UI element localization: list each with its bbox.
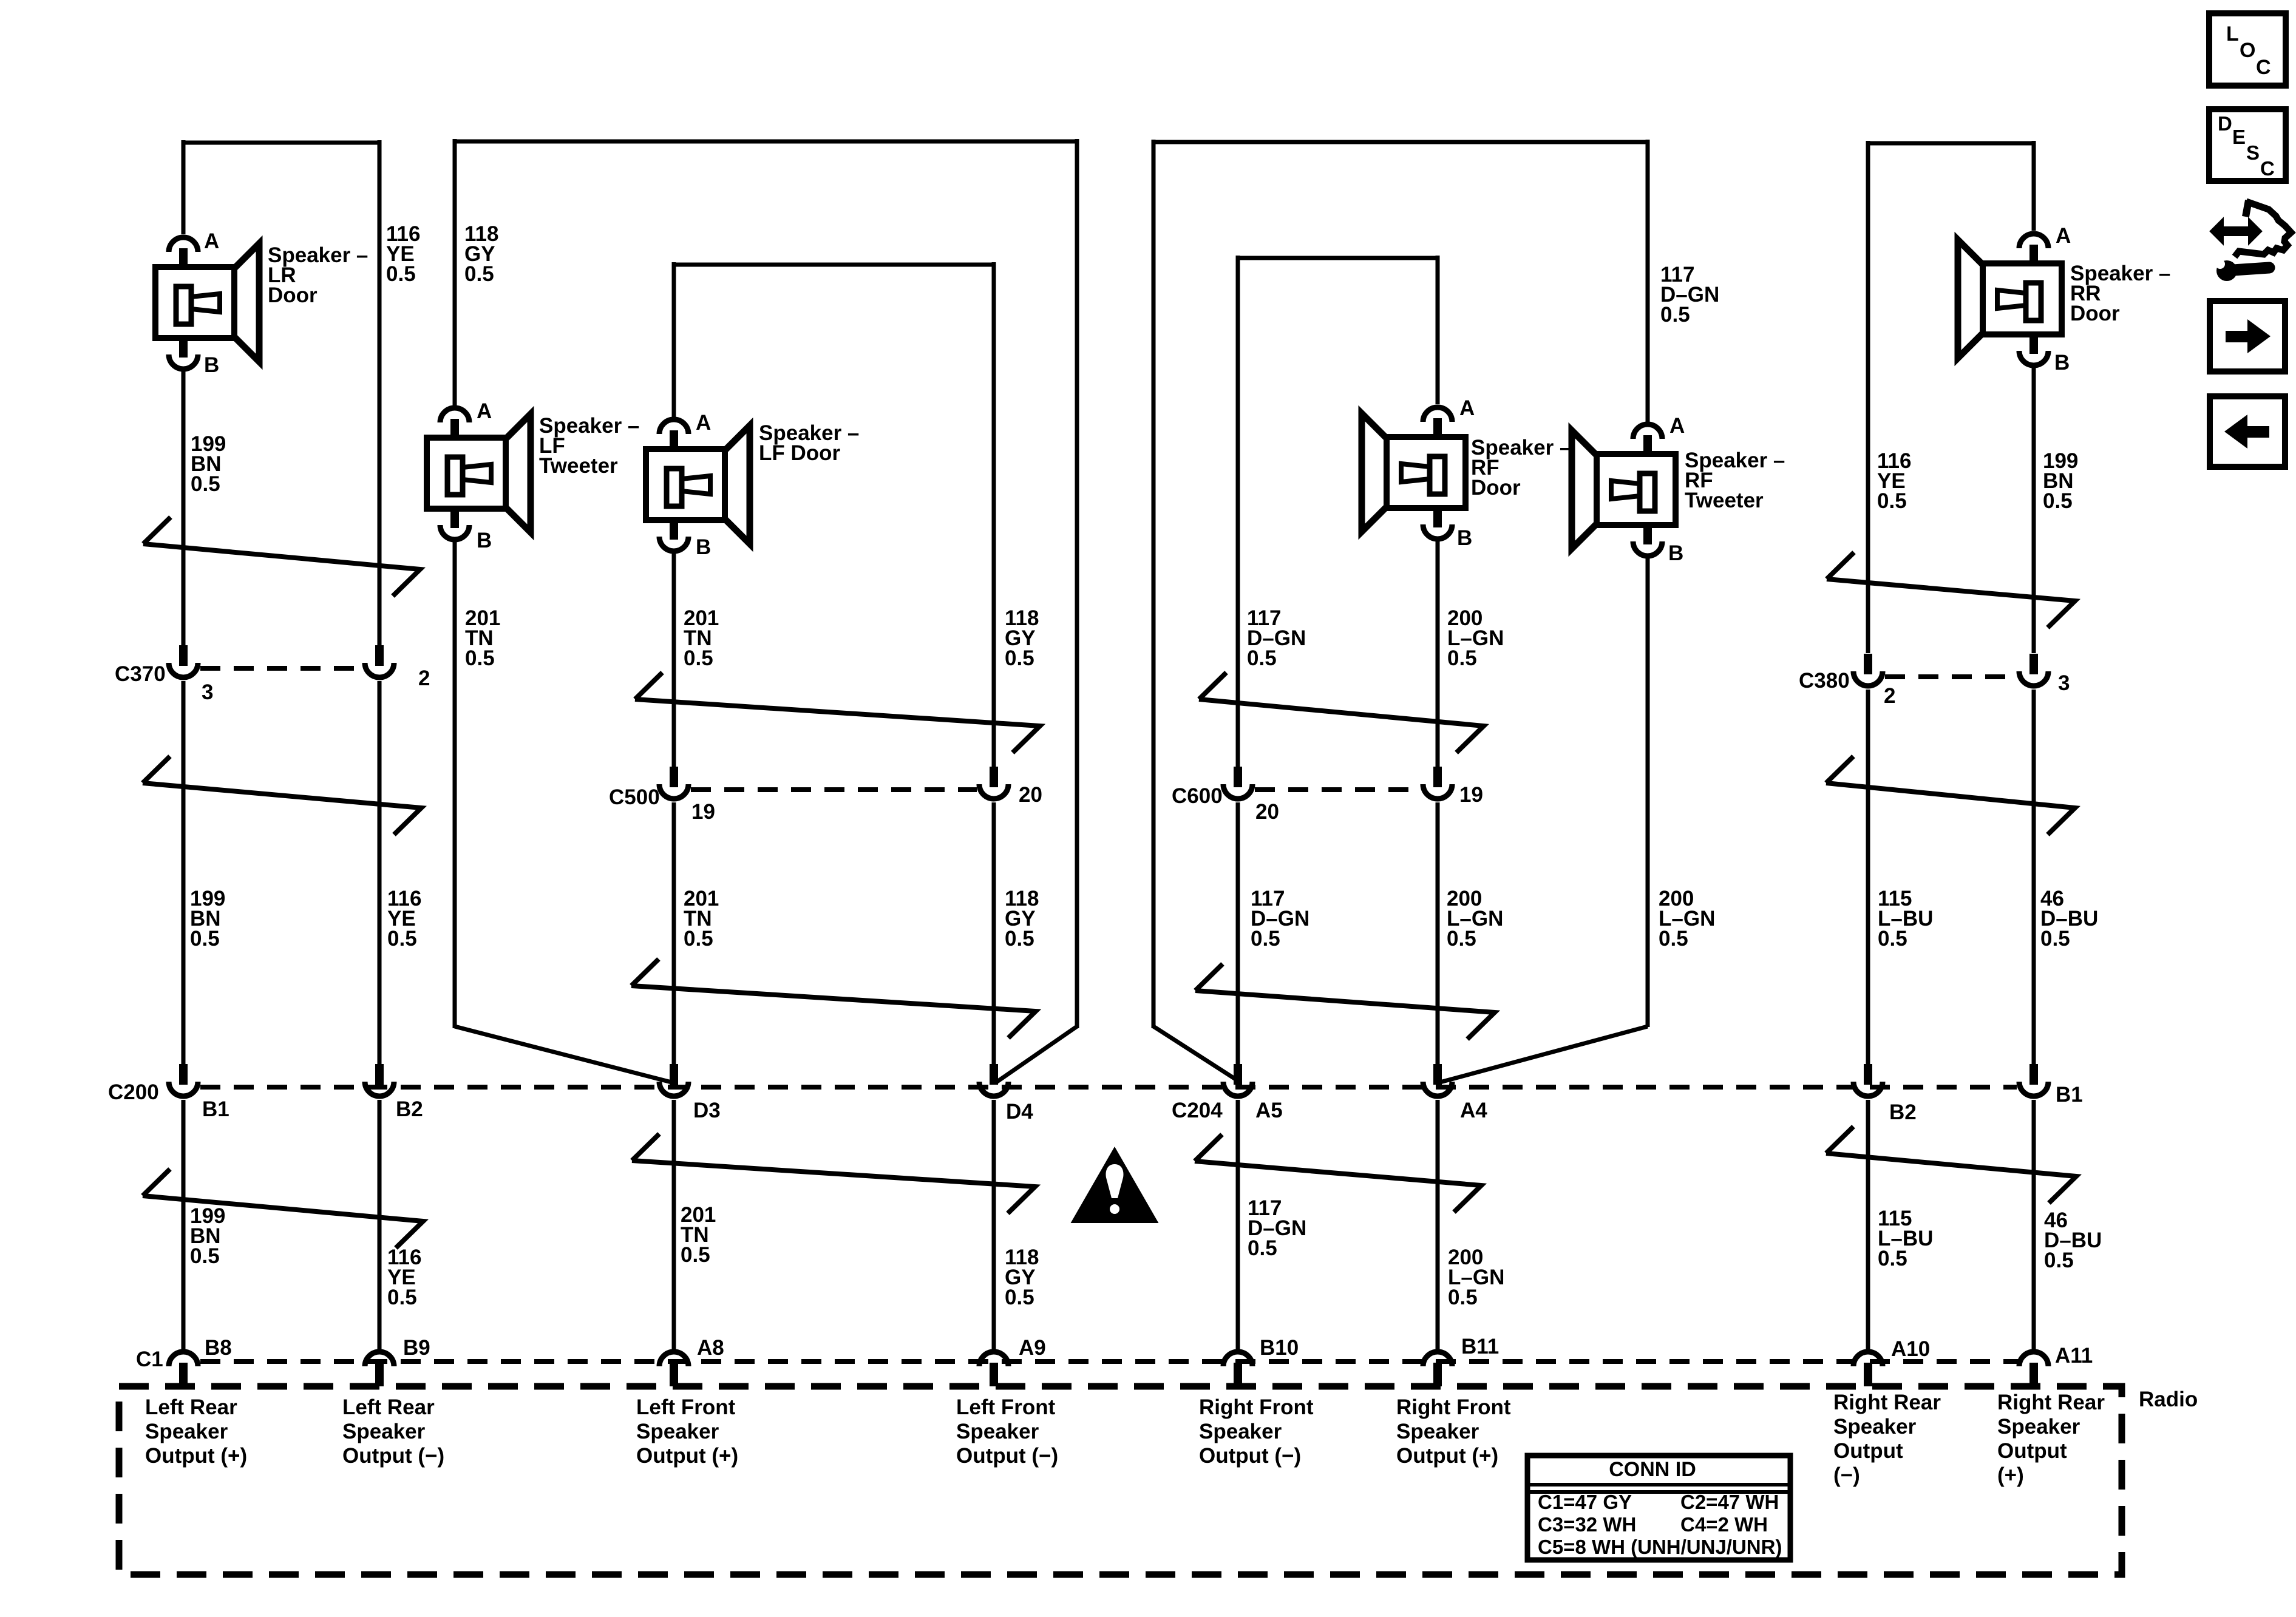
wire 117 D-GN (C600 to C204) <box>1236 802 1240 1065</box>
speaker LF Door <box>659 419 688 434</box>
svg-text:Output (+): Output (+) <box>1396 1444 1498 1468</box>
svg-text:0.5: 0.5 <box>2044 1249 2074 1272</box>
svg-text:Speaker: Speaker <box>956 1420 1039 1443</box>
break symbol RR pair middle <box>1826 756 2075 835</box>
svg-text:0.5: 0.5 <box>684 927 713 951</box>
svg-text:0.5: 0.5 <box>1247 646 1277 670</box>
svg-text:Output (−): Output (−) <box>342 1444 444 1468</box>
svg-text:0.5: 0.5 <box>2040 927 2070 951</box>
svg-text:A: A <box>696 411 711 435</box>
wire loop top LR circuit <box>183 141 379 145</box>
connector C380 dashed line <box>1885 674 2017 679</box>
connector C500 dashed line <box>691 787 977 792</box>
svg-text:Output (−): Output (−) <box>1199 1444 1301 1468</box>
connector C1 pin B8 <box>169 1352 198 1366</box>
wire 201 TN (C200 row to radio C1 row) <box>672 1100 676 1350</box>
svg-text:LF Door: LF Door <box>759 441 841 465</box>
svg-text:0.5: 0.5 <box>387 1286 417 1309</box>
svg-text:CONN ID: CONN ID <box>1609 1458 1696 1481</box>
radio box (dashed) <box>119 1386 2122 1575</box>
svg-text:Output: Output <box>1997 1439 2067 1463</box>
wire 116 YE (C200 row to radio C1 row) <box>378 1100 382 1350</box>
svg-text:C: C <box>2260 157 2275 180</box>
svg-text:A4: A4 <box>1460 1099 1487 1122</box>
svg-text:0.5: 0.5 <box>1005 1286 1034 1309</box>
icon DESC box <box>2209 109 2286 181</box>
svg-text:0.5: 0.5 <box>684 646 713 670</box>
connector C370 pin 3 <box>179 645 188 666</box>
connector C1 pin B11 <box>1423 1352 1452 1366</box>
svg-text:0.5: 0.5 <box>386 262 416 286</box>
svg-text:0.5: 0.5 <box>2043 489 2073 513</box>
svg-text:B: B <box>1457 526 1472 550</box>
break symbol LR pair middle <box>143 756 421 835</box>
speaker LR Door <box>169 237 198 252</box>
wire slant LF tweeter to D3 <box>455 1026 671 1082</box>
connector C200 pin B2 right <box>1864 1064 1872 1085</box>
svg-text:2: 2 <box>418 666 430 690</box>
svg-text:C1=47 GY: C1=47 GY <box>1538 1491 1632 1513</box>
svg-text:A5: A5 <box>1255 1099 1283 1122</box>
svg-text:Right Rear: Right Rear <box>1997 1391 2105 1414</box>
svg-text:(−): (−) <box>1833 1463 1860 1487</box>
svg-text:0.5: 0.5 <box>681 1243 710 1267</box>
wire 200 L-GN (C600 to C204) <box>1436 802 1440 1065</box>
svg-text:Right Rear: Right Rear <box>1833 1391 1941 1414</box>
icon forward arrow box <box>2210 301 2285 371</box>
break symbol RF pair lower <box>1195 1134 1481 1212</box>
svg-text:3: 3 <box>202 680 213 704</box>
svg-text:20: 20 <box>1255 800 1279 824</box>
CONN ID table <box>1527 1456 1790 1560</box>
connector C1 dashed line <box>200 1359 2022 1364</box>
svg-text:C600: C600 <box>1172 784 1223 808</box>
svg-text:0.5: 0.5 <box>1448 1286 1478 1309</box>
wire 118 GY (C500 to C200) <box>992 802 996 1065</box>
wire 201 TN (LF Door B to C500) <box>672 554 676 767</box>
break symbol LF pair middle <box>631 959 1036 1038</box>
wire 201 TN (LF tweeter B down) <box>453 542 457 1028</box>
svg-text:Door: Door <box>2070 302 2120 325</box>
connector C200 pin D4 <box>990 1064 998 1085</box>
icon back arrow box <box>2210 396 2285 467</box>
svg-text:0.5: 0.5 <box>190 927 220 951</box>
connector C200 pin B1 right <box>2029 1064 2038 1085</box>
svg-text:0.5: 0.5 <box>1447 646 1477 670</box>
connector C200 pin B1 <box>179 1064 188 1085</box>
svg-text:Left Rear: Left Rear <box>145 1395 237 1419</box>
svg-text:C: C <box>2256 56 2271 79</box>
svg-text:A8: A8 <box>697 1336 724 1360</box>
svg-text:A10: A10 <box>1891 1337 1930 1361</box>
connector C204 pin A4 <box>1433 1064 1442 1085</box>
svg-text:20: 20 <box>1019 783 1042 807</box>
wire 117 D-GN (C200 row to radio C1 row) <box>1236 1100 1240 1350</box>
svg-text:0.5: 0.5 <box>1659 927 1688 951</box>
svg-text:Tweeter: Tweeter <box>1685 489 1764 512</box>
svg-text:0.5: 0.5 <box>387 927 417 951</box>
svg-text:0.5: 0.5 <box>1878 927 1907 951</box>
svg-text:0.5: 0.5 <box>1878 1247 1907 1270</box>
icon harness jump symbol <box>2222 226 2250 236</box>
svg-text:Output (−): Output (−) <box>956 1444 1058 1468</box>
svg-text:0.5: 0.5 <box>1005 646 1034 670</box>
wire 201 TN (C500 to C200) <box>672 802 676 1065</box>
svg-text:(+): (+) <box>1997 1463 2024 1487</box>
svg-text:Speaker: Speaker <box>1396 1420 1479 1443</box>
svg-text:B2: B2 <box>1889 1100 1917 1124</box>
wire loop top RF inner <box>1238 256 1438 260</box>
connector C200 dashed line <box>200 1085 2017 1090</box>
svg-text:0.5: 0.5 <box>1877 489 1907 513</box>
svg-text:C2=47 WH: C2=47 WH <box>1680 1491 1779 1513</box>
break symbol RR pair upper <box>1827 552 2075 628</box>
svg-text:Radio: Radio <box>2139 1388 2198 1411</box>
break symbol RF pair upper <box>1199 673 1484 753</box>
wire slant LF outer to D4 <box>996 1026 1077 1082</box>
svg-text:B10: B10 <box>1260 1336 1299 1360</box>
svg-text:19: 19 <box>1459 783 1483 807</box>
connector C500 pin 19 <box>670 767 678 787</box>
svg-text:C370: C370 <box>115 662 166 686</box>
wire 46 D-BU (C200 row to radio C1 row) <box>2032 1100 2036 1350</box>
svg-text:Output (+): Output (+) <box>636 1444 738 1468</box>
wire 115 L-BU (C380 to C200) <box>1866 690 1870 1065</box>
svg-text:E: E <box>2232 126 2246 148</box>
break symbol RF pair middle <box>1195 964 1495 1039</box>
connector C600 dashed line <box>1255 787 1421 792</box>
svg-text:2: 2 <box>1884 684 1895 708</box>
connector C1 pin A10 <box>1853 1352 1883 1366</box>
connector C204 pin A5 <box>1234 1064 1242 1085</box>
svg-text:Output: Output <box>1833 1439 1903 1463</box>
wire loop top RF outer <box>1153 140 1648 144</box>
wire 199 BN (LR B to C370) <box>182 371 186 646</box>
svg-text:0.5: 0.5 <box>1660 303 1690 327</box>
svg-text:Speaker: Speaker <box>342 1420 426 1443</box>
svg-text:Output (+): Output (+) <box>145 1444 247 1468</box>
connector C600 pin 19 <box>1433 767 1442 787</box>
svg-text:C1: C1 <box>136 1347 163 1371</box>
svg-text:Left Rear: Left Rear <box>342 1395 435 1419</box>
svg-text:Tweeter: Tweeter <box>539 454 618 478</box>
wire loop top LF inner <box>674 263 994 267</box>
connector C1 pin A9 <box>979 1352 1008 1366</box>
speaker RF Door <box>1423 407 1452 422</box>
svg-text:B2: B2 <box>396 1097 423 1121</box>
svg-text:Right Front: Right Front <box>1396 1395 1511 1419</box>
svg-text:3: 3 <box>2058 671 2070 695</box>
wire 115 L-BU (C200 row to radio C1 row) <box>1866 1100 1870 1350</box>
wire 200 L-GN (RF tweeter B down) <box>1646 558 1650 1027</box>
svg-text:0.5: 0.5 <box>190 1244 220 1268</box>
svg-text:D4: D4 <box>1006 1100 1033 1124</box>
svg-text:C4=2 WH: C4=2 WH <box>1680 1513 1768 1536</box>
svg-text:19: 19 <box>691 800 715 824</box>
connector C1 pin B10 <box>1223 1352 1252 1366</box>
svg-text:B9: B9 <box>403 1336 430 1360</box>
svg-text:C5=8 WH (UNH/UNJ/UNR): C5=8 WH (UNH/UNJ/UNR) <box>1538 1536 1782 1558</box>
wire slant RF tweeter to A4 <box>1440 1026 1648 1082</box>
svg-text:0.5: 0.5 <box>191 472 220 496</box>
svg-text:A: A <box>204 229 219 253</box>
svg-text:C3=32 WH: C3=32 WH <box>1538 1513 1636 1536</box>
wire loop top RR circuit <box>1868 141 2034 146</box>
svg-text:B11: B11 <box>1461 1335 1499 1358</box>
speaker RR Door <box>2019 234 2048 248</box>
speaker RF Tweeter <box>1633 424 1662 439</box>
wire 200 L-GN (RF Door B to C600) <box>1436 540 1440 767</box>
connector C380 pin 2 <box>1864 654 1872 674</box>
svg-text:B8: B8 <box>205 1336 232 1360</box>
svg-text:Speaker: Speaker <box>1199 1420 1282 1443</box>
svg-text:D3: D3 <box>693 1099 721 1122</box>
connector C1 pin A11 <box>2019 1352 2048 1366</box>
connector C370 dashed line <box>200 666 362 671</box>
wire 116 YE (C370 to C200) <box>378 681 382 1065</box>
break symbol LF pair upper <box>635 673 1040 753</box>
speaker LF Tweeter <box>440 408 469 422</box>
connector C200 pin D3 <box>670 1064 678 1085</box>
svg-text:S: S <box>2246 141 2260 164</box>
connector C1 pin A8 <box>659 1352 688 1366</box>
svg-text:B: B <box>2054 351 2070 375</box>
svg-text:O: O <box>2240 39 2255 62</box>
svg-text:Speaker: Speaker <box>145 1420 228 1443</box>
break symbol LF pair lower <box>632 1134 1035 1213</box>
svg-text:C204: C204 <box>1172 1099 1223 1122</box>
wire 199 BN (C200 row to radio C1 row) <box>182 1100 186 1350</box>
svg-text:Right Front: Right Front <box>1199 1395 1314 1419</box>
svg-text:C500: C500 <box>609 785 660 809</box>
connector C200 pin B2 <box>375 1064 384 1085</box>
wire 200 L-GN (C200 row to radio C1 row) <box>1436 1100 1440 1350</box>
icon LOC box <box>2209 13 2286 86</box>
svg-text:A: A <box>1459 396 1475 420</box>
svg-text:B: B <box>696 535 711 559</box>
break symbol LR pair lower <box>143 1169 423 1248</box>
svg-text:B: B <box>204 353 219 377</box>
wire loop top LF outer <box>455 140 1077 144</box>
svg-text:Door: Door <box>1471 476 1521 500</box>
svg-text:A: A <box>2056 224 2071 248</box>
svg-text:Left Front: Left Front <box>636 1395 736 1419</box>
svg-text:B1: B1 <box>202 1097 229 1121</box>
svg-text:L: L <box>2226 22 2239 46</box>
wire 118 GY (C200 row to radio C1 row) <box>992 1100 996 1350</box>
svg-text:0.5: 0.5 <box>1251 927 1280 951</box>
svg-text:A9: A9 <box>1019 1336 1046 1360</box>
svg-text:B: B <box>477 529 492 552</box>
svg-text:0.5: 0.5 <box>1248 1236 1277 1260</box>
connector C500 pin 20 <box>990 767 998 787</box>
svg-text:0.5: 0.5 <box>1447 927 1476 951</box>
svg-text:C380: C380 <box>1799 669 1850 693</box>
svg-text:D: D <box>2218 112 2232 135</box>
svg-text:B1: B1 <box>2056 1083 2083 1107</box>
svg-text:B: B <box>1668 541 1683 565</box>
svg-text:0.5: 0.5 <box>465 646 495 670</box>
wire slant RF outer to A5 <box>1153 1026 1240 1082</box>
svg-text:A: A <box>477 399 492 423</box>
svg-text:Door: Door <box>268 283 318 307</box>
connector C380 pin 3 <box>2029 654 2038 674</box>
svg-text:0.5: 0.5 <box>1005 927 1034 951</box>
break symbol LR pair upper <box>143 517 420 596</box>
connector C600 pin 20 <box>1234 767 1242 787</box>
wire 199 BN (C370 to C200) <box>182 681 186 1065</box>
connector C1 pin B9 <box>365 1352 394 1366</box>
svg-text:C200: C200 <box>108 1080 159 1104</box>
wire 199 BN (RR B to C380) <box>2032 368 2036 653</box>
svg-text:Speaker: Speaker <box>1833 1415 1917 1439</box>
svg-text:A11: A11 <box>2055 1344 2093 1368</box>
warning triangle <box>1073 1149 1156 1222</box>
wire 46 D-BU (C380 to C200) <box>2032 690 2036 1065</box>
svg-text:0.5: 0.5 <box>464 262 494 286</box>
svg-text:A: A <box>1669 414 1685 438</box>
svg-text:Speaker: Speaker <box>1997 1415 2080 1439</box>
break symbol RR pair lower <box>1826 1127 2076 1203</box>
connector C370 pin 2 <box>375 645 384 666</box>
svg-text:Left Front: Left Front <box>956 1395 1056 1419</box>
svg-text:Speaker: Speaker <box>636 1420 719 1443</box>
